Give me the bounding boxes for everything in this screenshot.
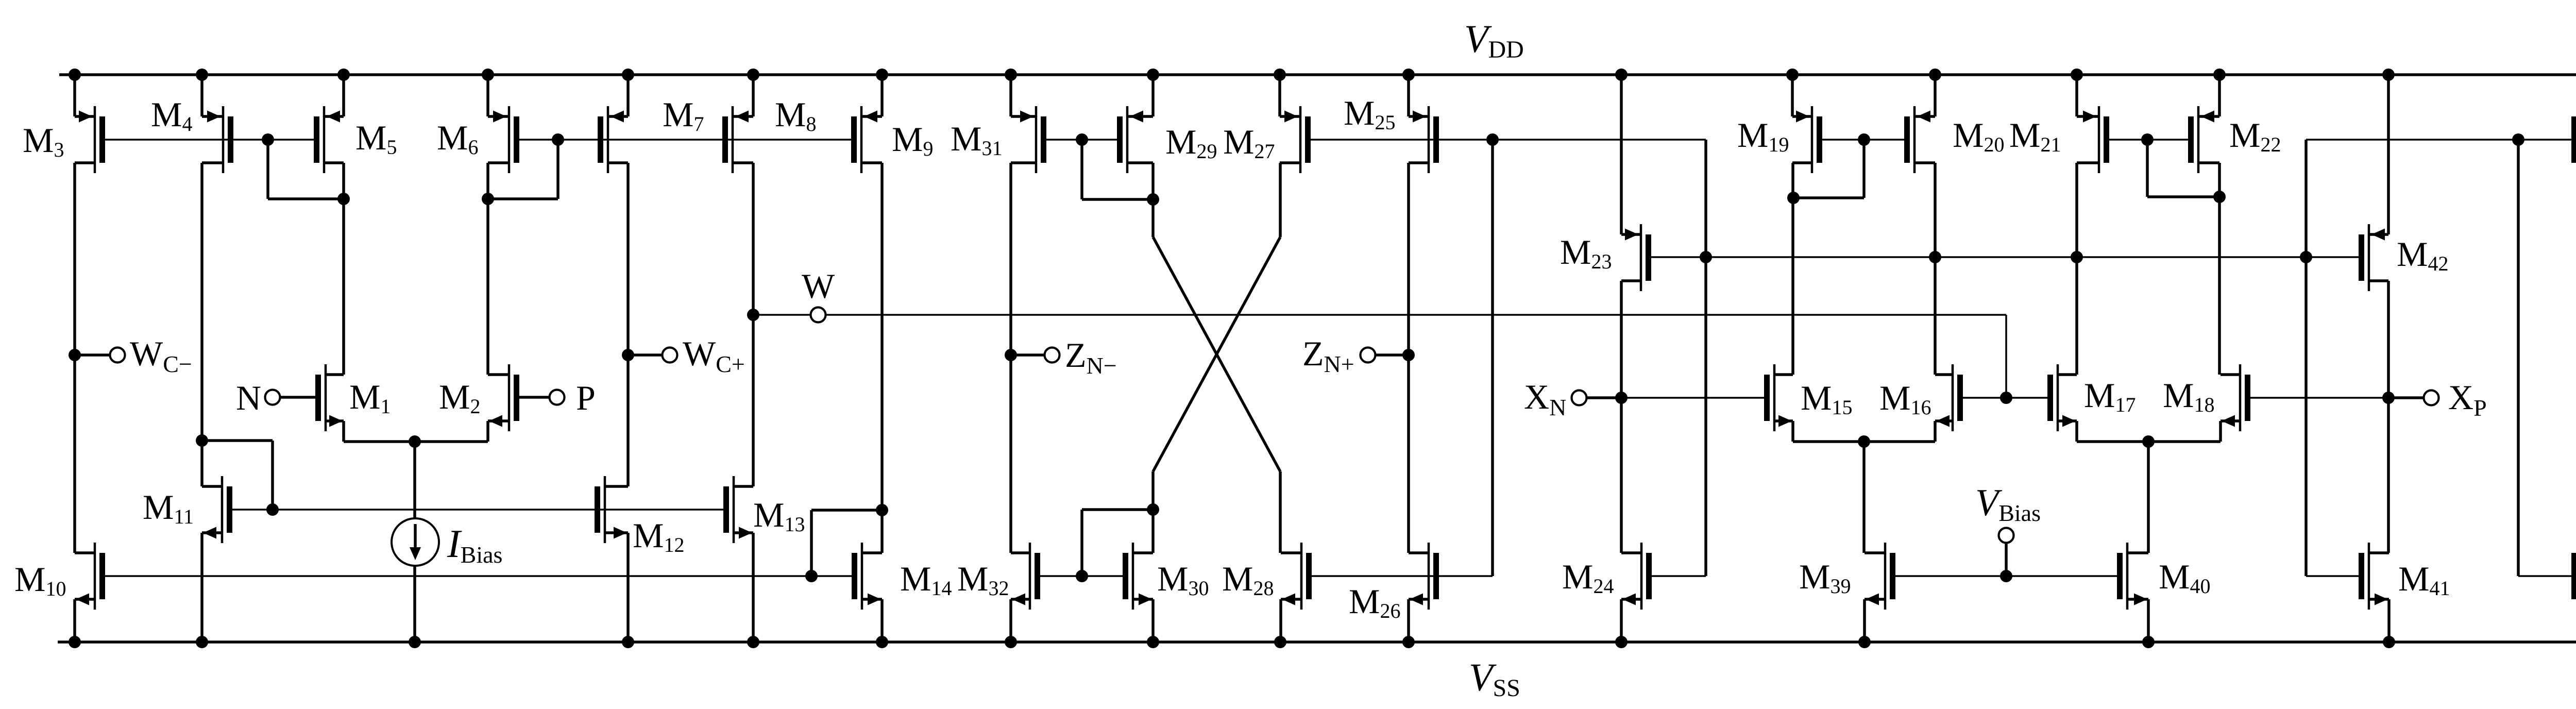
wire bias drop to M28 M26 gates	[1491, 140, 1494, 576]
gate bus M21 M22	[2109, 139, 2194, 141]
wire M29 gate loop down	[1080, 140, 1083, 199]
svg-text:M31: M31	[951, 119, 1002, 160]
junction VDD	[1929, 69, 1941, 81]
transistor M10	[75, 543, 103, 610]
transistor M7	[601, 106, 629, 173]
node M31 M29 gate tap	[1076, 133, 1088, 146]
node M21 drain bias junction	[2071, 251, 2083, 263]
svg-text:M13: M13	[753, 495, 805, 536]
svg-text:IBias: IBias	[447, 521, 502, 568]
wire common to M40 drain	[2147, 442, 2150, 553]
wire M23 drain to M24 drain	[1620, 281, 1623, 553]
svg-text:M14: M14	[900, 559, 952, 600]
svg-text:WC+: WC+	[683, 334, 745, 377]
junction VSS	[747, 636, 759, 648]
svg-text:M27: M27	[1223, 122, 1275, 163]
wire M22 gate loop down	[2146, 140, 2149, 197]
svg-text:M7: M7	[663, 95, 704, 136]
gate bus M32 M30	[1040, 575, 1123, 577]
svg-text:M9: M9	[892, 120, 933, 160]
gate bus M23 M42	[1651, 256, 2360, 258]
wire N to M1 gate	[280, 396, 316, 399]
wire M21 drain to M17 drain	[2075, 163, 2078, 375]
svg-text:XP: XP	[2448, 378, 2487, 421]
svg-text:M26: M26	[1349, 582, 1400, 622]
wire tap to M11 gate	[202, 439, 273, 442]
transistor M21	[2077, 106, 2107, 173]
wire M40 source to VSS	[2147, 599, 2150, 642]
wire M2 gate to P	[519, 396, 550, 399]
svg-text:M28: M28	[1222, 559, 1274, 600]
svg-text:M15: M15	[1801, 378, 1852, 419]
transistor M27	[1280, 106, 1308, 173]
transistor M42	[2362, 224, 2389, 291]
node M32 M30 gate tap	[1076, 570, 1088, 582]
transistor M32	[1011, 543, 1038, 610]
wire M17 M18 common	[2077, 440, 2221, 443]
svg-text:M39: M39	[1799, 557, 1851, 598]
wire M15 M16 common	[1793, 440, 1935, 443]
wire M27 source to VDD	[1278, 75, 1281, 116]
junction VDD	[2382, 69, 2395, 81]
svg-text:M21: M21	[2009, 115, 2061, 156]
wire M24 source to VSS	[1620, 599, 1623, 642]
wire M30 gate loop up	[1080, 510, 1083, 576]
node bias bus M23 junction	[1700, 251, 1712, 263]
node M21 M22 gate tap	[2141, 133, 2154, 146]
wire M5 source to VDD	[342, 75, 345, 116]
transistor M16	[1935, 364, 1960, 431]
junction VDD	[1402, 69, 1415, 81]
transistor M5	[317, 106, 344, 173]
svg-text:XN: XN	[1524, 377, 1566, 420]
node common source	[409, 435, 421, 448]
svg-text:M20: M20	[1953, 115, 2004, 156]
XN bus to M15 gate	[1621, 397, 1765, 399]
wire common source to IBias	[413, 442, 416, 519]
svg-text:M6: M6	[437, 118, 478, 159]
gate bus M28 M26	[1311, 575, 1493, 577]
wire M23 source to VDD	[1620, 75, 1623, 234]
junction VSS	[622, 636, 634, 648]
junction VDD	[2213, 69, 2226, 81]
terminal ZN-	[1045, 348, 1060, 363]
wire M6 drain to M2 drain	[486, 163, 489, 375]
node M20 drain bias junction	[1929, 251, 1941, 263]
node W junction	[747, 309, 759, 321]
wire M15 source down	[1791, 421, 1794, 442]
svg-text:M1: M1	[349, 377, 391, 418]
wire W bus left	[753, 314, 811, 316]
junction VDD	[1005, 69, 1017, 81]
transistor M26	[1409, 543, 1436, 610]
junction VDD	[1615, 69, 1628, 81]
gate bus M41	[2306, 575, 2359, 577]
junction VDD	[1147, 69, 1159, 81]
XP bus	[2250, 397, 2388, 399]
gate bus M6 M7 M8 M9	[519, 139, 852, 141]
svg-text:M22: M22	[2229, 115, 2281, 156]
transistor M14	[855, 543, 883, 610]
wire M6 source to VDD	[486, 75, 489, 116]
svg-text:M8: M8	[775, 95, 816, 136]
transistor M28	[1281, 543, 1309, 610]
wire M16 source down	[1934, 421, 1937, 442]
wire M18 source down	[2219, 421, 2222, 442]
node M19 drain junction	[1787, 192, 1800, 204]
transistor M8	[725, 106, 754, 173]
wire common source	[344, 440, 488, 443]
wire M26 source to VSS	[1407, 599, 1410, 642]
wire M3 drain to M10 drain	[73, 163, 76, 553]
transistor M30	[1126, 543, 1154, 610]
node WC+ junction	[622, 349, 634, 361]
wire bias riser 4476	[2304, 140, 2308, 576]
wire M25 drain to M26 drain	[1407, 163, 1410, 553]
wire XP stub	[2388, 396, 2424, 399]
node ZN- junction	[1005, 349, 1017, 361]
wire bias corner down	[1704, 140, 1707, 576]
svg-text:N: N	[236, 378, 261, 417]
node gate bus tap	[262, 133, 274, 146]
gate bus M3 M4 M5	[105, 139, 315, 141]
junction VSS	[69, 636, 81, 648]
svg-text:M30: M30	[1157, 559, 1209, 600]
gate bus M31 M29	[1046, 139, 1123, 141]
gate bus M43 M34	[2518, 575, 2576, 577]
wire W bus	[825, 314, 2006, 316]
junction VSS	[409, 636, 421, 648]
transistor M25	[1409, 106, 1436, 173]
wire VBias stub	[2005, 542, 2008, 576]
junction VDD	[747, 69, 759, 81]
transistor M43	[2574, 543, 2576, 610]
transistor M4	[202, 106, 231, 173]
junction VDD	[196, 69, 208, 81]
wire M17 source down	[2075, 421, 2078, 442]
terminal WC-	[110, 348, 125, 363]
wire M30 source to VSS	[1151, 599, 1155, 642]
wire M6 gate loop down	[556, 140, 560, 199]
wire M11 source to VSS	[200, 533, 204, 642]
wire M21 source to VDD	[2075, 75, 2078, 116]
wire M28 drain	[1279, 471, 1282, 553]
wire M12 source to VSS	[626, 533, 630, 642]
junction VSS	[196, 636, 208, 648]
wire M41 source to VSS	[2387, 599, 2391, 642]
node M6 gate tap	[552, 133, 564, 146]
wire M7 drain to M12 drain	[626, 163, 630, 486]
svg-text:ZN+: ZN+	[1302, 334, 1354, 377]
transistor M3	[75, 106, 103, 173]
transistor M17	[2050, 364, 2077, 431]
wire gate loop to M5 drain	[268, 197, 344, 200]
wire M9 drain to M14 drain	[880, 163, 884, 553]
svg-text:M11: M11	[143, 487, 194, 528]
wire M14 source to VSS	[880, 599, 884, 642]
terminal XP	[2424, 391, 2439, 406]
wire bias drop to M43 M34 gates	[2517, 140, 2520, 576]
node M30 drain junction	[1147, 503, 1159, 516]
terminal VBias	[1999, 528, 2014, 543]
wire M7 source to VDD	[626, 75, 630, 116]
svg-text:M24: M24	[1562, 557, 1614, 598]
wire M19 drain to M15 drain	[1791, 163, 1794, 375]
node M29 drain junction	[1147, 193, 1159, 206]
junction VSS	[1147, 636, 1159, 648]
wire M4 source to VDD	[200, 75, 204, 116]
wire M29 source to VDD	[1151, 75, 1155, 116]
wire M42 source to VDD	[2387, 75, 2390, 234]
svg-text:M23: M23	[1560, 232, 1612, 273]
transistor M12	[598, 476, 629, 543]
wire common to M39 drain	[1862, 442, 1866, 553]
wire M4 drain to M11 drain	[200, 163, 204, 486]
wire cross M27 to M30	[1153, 237, 1280, 471]
node M22 drain junction	[2213, 191, 2226, 203]
node W gate junction	[2000, 392, 2012, 404]
wire M19 gate loop down	[1862, 140, 1866, 198]
node XN junction	[1615, 392, 1628, 404]
gate bus M27 M25	[1310, 139, 1706, 141]
wire M29 drain down	[1151, 163, 1155, 237]
transistor M41	[2362, 543, 2389, 610]
svg-text:M5: M5	[355, 118, 397, 159]
gate bus M24	[1651, 575, 1706, 577]
transistor M1	[318, 364, 344, 431]
svg-text:VDD: VDD	[1464, 18, 1524, 63]
node M5 drain junction	[337, 193, 350, 205]
terminal W	[811, 308, 826, 323]
transistor M23	[1621, 224, 1649, 291]
wire M14 diode loop	[810, 510, 813, 576]
gate bus top right	[2306, 139, 2576, 141]
transistor M13	[726, 476, 754, 543]
wire M30 gate loop right	[1082, 508, 1153, 511]
junction VDD	[2071, 69, 2083, 81]
wire WC- stub	[75, 353, 111, 357]
node M6 drain junction	[482, 193, 494, 205]
junction VDD	[482, 69, 494, 81]
wire M9 source to VDD	[880, 75, 884, 116]
svg-text:P: P	[576, 378, 596, 417]
wire M19 gate loop left	[1793, 196, 1864, 199]
node WC- junction	[69, 349, 81, 361]
svg-text:WC−: WC−	[130, 334, 192, 377]
transistor M11	[202, 476, 230, 543]
node M19 M20 gate tap	[1858, 133, 1870, 146]
node VBias junction	[2000, 570, 2012, 582]
svg-text:M10: M10	[14, 560, 66, 600]
svg-text:ZN−: ZN−	[1065, 335, 1117, 379]
svg-text:M12: M12	[633, 516, 684, 556]
junction VSS	[1402, 636, 1415, 648]
wire M39 source to VSS	[1863, 599, 1866, 642]
transistor M39	[1865, 543, 1893, 610]
gate bus M19 M20	[1822, 139, 1905, 141]
svg-text:M29: M29	[1165, 122, 1217, 163]
node M4-M11 tap	[196, 434, 208, 447]
transistor M15	[1767, 364, 1793, 431]
wire M22 drain to M18 drain	[2218, 163, 2221, 375]
gate bus M16 M17	[1962, 397, 2048, 399]
svg-text:M2: M2	[439, 377, 480, 418]
transistor M6	[488, 106, 517, 173]
wire M8 drain to M13 drain	[752, 163, 755, 486]
svg-text:VBias: VBias	[1975, 482, 2041, 526]
wire M27 drain down	[1279, 163, 1282, 237]
junction VSS	[1274, 636, 1286, 648]
node bias bus tap	[1486, 133, 1499, 146]
wire M3 source to VDD	[73, 75, 76, 116]
svg-text:M32: M32	[957, 559, 1009, 600]
junction VSS	[1005, 636, 1017, 648]
transistor M44	[2574, 106, 2576, 173]
junction VSS	[2142, 636, 2155, 648]
svg-text:W: W	[802, 266, 835, 306]
VSS rail	[58, 640, 2576, 644]
gate bus M39 M40	[1895, 575, 2117, 577]
svg-text:VSS: VSS	[1469, 656, 1520, 702]
junction VSS	[1858, 636, 1871, 648]
svg-text:M4: M4	[151, 95, 192, 136]
svg-text:M40: M40	[2159, 557, 2210, 598]
junction VSS	[1615, 636, 1628, 648]
transistor M2	[488, 364, 517, 431]
transistor M31	[1011, 106, 1044, 173]
wire M10 source to VSS	[73, 599, 76, 642]
svg-text:M25: M25	[1344, 93, 1395, 134]
terminal ZN+	[1361, 348, 1376, 363]
svg-text:M19: M19	[1737, 115, 1789, 156]
terminal WC+	[663, 348, 677, 363]
wire M42 drain to M41 drain	[2387, 281, 2390, 553]
svg-text:M18: M18	[2163, 376, 2214, 416]
svg-text:M17: M17	[2084, 376, 2136, 416]
node M9-M14 junction	[876, 504, 888, 516]
wire M32 source to VSS	[1009, 599, 1012, 642]
transistor M29	[1120, 106, 1154, 173]
node M43 bias tap	[2512, 133, 2524, 146]
wire gate loop down	[266, 140, 269, 199]
junction VSS	[2383, 636, 2395, 648]
wire M30 drain	[1151, 471, 1155, 553]
terminal XN	[1572, 391, 1587, 406]
junction VDD	[1786, 69, 1799, 81]
wire ZN- stub	[1011, 353, 1045, 357]
wire M29 gate loop right	[1082, 198, 1153, 201]
wire M20 drain to M16 drain	[1934, 163, 1937, 375]
node M14 gate junction	[805, 570, 818, 582]
gate bus M10 M14	[105, 575, 852, 577]
wire M6 gate loop to drain	[488, 197, 558, 200]
wire IBias to VSS	[413, 565, 416, 642]
junction VDD	[1274, 69, 1286, 81]
VDD rail	[59, 73, 2576, 76]
wire M19 source to VDD	[1791, 75, 1794, 116]
junction VDD	[69, 69, 81, 81]
wire XN stub	[1586, 396, 1621, 399]
transistor M18	[2221, 364, 2248, 431]
transistor M20	[1907, 106, 1936, 173]
wire M31 drain to M32 drain	[1009, 163, 1012, 553]
wire M2 source down	[486, 421, 489, 442]
svg-text:M42: M42	[2397, 234, 2448, 275]
transistor M9	[854, 106, 883, 173]
node bias bus M42 junction	[2300, 251, 2312, 263]
wire M22 gate loop right	[2147, 195, 2219, 198]
node M17 M18 common	[2142, 435, 2155, 448]
junction VSS	[876, 636, 888, 648]
wire M1 source down	[342, 421, 345, 442]
node XP junction	[2382, 392, 2395, 404]
transistor M40	[2120, 543, 2149, 610]
wire M8 source to VDD	[752, 75, 755, 116]
wire cross M29 to M28	[1153, 237, 1280, 471]
wire M31 source to VDD	[1009, 75, 1012, 116]
terminal N	[265, 390, 280, 405]
wire M28 source to VSS	[1279, 599, 1282, 642]
wire M20 source to VDD	[1934, 75, 1937, 116]
svg-text:M41: M41	[2398, 559, 2450, 600]
junction VDD	[622, 69, 634, 81]
node M11 gate junction	[266, 503, 279, 516]
node M15 M16 common	[1858, 435, 1870, 448]
transistor M24	[1621, 543, 1649, 610]
junction VDD	[876, 69, 888, 81]
wire M22 source to VDD	[2218, 75, 2221, 116]
transistor M19	[1792, 106, 1820, 173]
current source IBias circle	[392, 518, 439, 566]
svg-text:M3: M3	[23, 121, 64, 161]
wire ZN+ stub	[1375, 353, 1409, 357]
svg-text:M16: M16	[1879, 378, 1931, 419]
wire M13 source to VSS	[752, 533, 755, 642]
wire M5 drain to M1 drain	[342, 163, 345, 375]
terminal P	[550, 390, 565, 405]
junction VDD	[337, 69, 350, 81]
wire M25 source to VDD	[1407, 75, 1410, 116]
node ZN+ junction	[1402, 349, 1415, 361]
gate bus M11 M12 M13	[232, 509, 724, 511]
current source IBias arrow	[414, 524, 417, 548]
wire W bus drop	[2005, 315, 2007, 398]
wire WC+ stub	[628, 353, 663, 357]
transistor M22	[2191, 106, 2220, 173]
